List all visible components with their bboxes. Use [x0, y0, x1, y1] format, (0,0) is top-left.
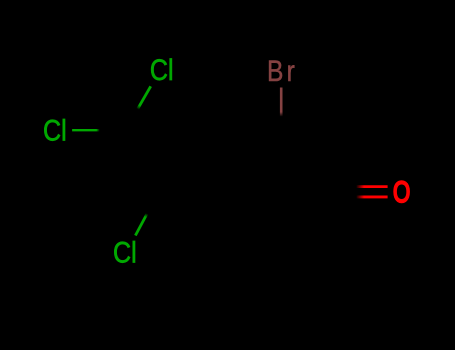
svg-text:O: O: [393, 175, 410, 209]
double bond C=O, oxygen half, red, lower line: [357, 195, 388, 198]
bond C-Cl (top), chlorine half, green: [138, 86, 151, 109]
svg-text:Cl: Cl: [113, 235, 137, 269]
double bond C=O, oxygen half, red, upper line: [357, 185, 388, 188]
bond C-Cl (bottom), chlorine half, green: [135, 214, 147, 236]
svg-text:Cl: Cl: [150, 53, 174, 87]
svg-text:Br: Br: [267, 53, 298, 87]
bond C-Cl (left), chlorine half, green: [72, 129, 100, 131]
wire: carbon skeleton bonds (black halves, invisible on black background): [100, 109, 358, 214]
bond C-Br, bromine half, dark red: [280, 88, 283, 117]
svg-text:Cl: Cl: [43, 113, 67, 147]
